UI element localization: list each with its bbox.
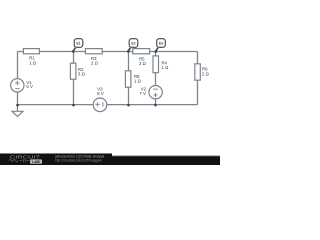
svg-text:7 V: 7 V (140, 91, 147, 96)
svg-text:E1: E1 (76, 42, 80, 46)
svg-text:8 V: 8 V (97, 91, 104, 96)
svg-text:3 Ω: 3 Ω (78, 72, 86, 77)
svg-text:LAB: LAB (32, 160, 40, 164)
svg-text:2 Ω: 2 Ω (91, 60, 99, 65)
svg-text:3 Ω: 3 Ω (139, 61, 147, 66)
svg-text:1 Ω: 1 Ω (134, 78, 142, 83)
svg-text:CIRCUIT: CIRCUIT (10, 154, 41, 159)
svg-text:E2: E2 (131, 42, 135, 46)
svg-text:http://circuitlab.com/c2d57buq: http://circuitlab.com/c2d57buqgpvk (55, 159, 102, 163)
svg-text:1 Ω: 1 Ω (29, 60, 37, 65)
svg-text:1 Ω: 1 Ω (162, 65, 170, 70)
svg-text:E3: E3 (159, 42, 163, 46)
svg-text:2 Ω: 2 Ω (202, 71, 210, 76)
svg-text:6 V: 6 V (26, 84, 33, 89)
